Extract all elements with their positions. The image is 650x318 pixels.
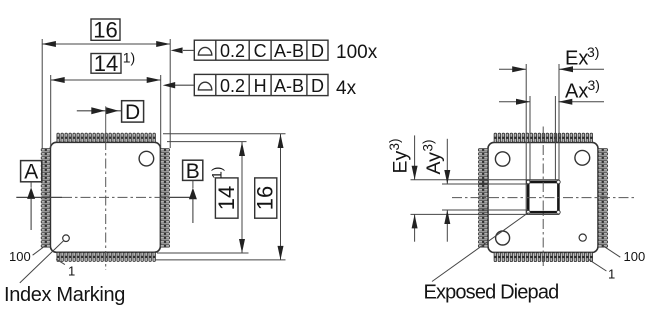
svg-text:16: 16 bbox=[93, 17, 117, 42]
svg-text:100: 100 bbox=[9, 249, 31, 264]
pin row bottom (right view) bbox=[494, 252, 592, 261]
exposed diepad label with leader bbox=[424, 213, 559, 304]
svg-text:100: 100 bbox=[624, 249, 646, 264]
svg-text:3): 3) bbox=[421, 139, 436, 151]
Ay extension lines bbox=[442, 184, 528, 210]
tolerance frame 2: profile 0.2 H A-B D (4x) bbox=[163, 74, 357, 99]
svg-text:A: A bbox=[24, 161, 38, 184]
dimension 16 vertical (right of left view) bbox=[155, 134, 286, 260]
dimension Ay (left, rotated) bbox=[421, 139, 451, 242]
dimension 14 horizontal (top) bbox=[51, 49, 161, 147]
svg-text:A-B: A-B bbox=[274, 76, 304, 96]
svg-text:Ax: Ax bbox=[565, 81, 588, 103]
svg-text:16: 16 bbox=[253, 186, 278, 210]
Ex extension lines bbox=[526, 64, 559, 180]
dimension Ey (left, rotated) bbox=[387, 135, 418, 241]
Ey extension lines bbox=[411, 180, 527, 215]
pin row right (right view) bbox=[598, 149, 608, 248]
svg-text:1): 1) bbox=[209, 167, 225, 179]
diepad corner circles bbox=[526, 180, 560, 214]
svg-text:1): 1) bbox=[123, 49, 135, 65]
dimension Ex (top) bbox=[499, 44, 604, 72]
svg-text:1: 1 bbox=[608, 267, 615, 282]
svg-text:4x: 4x bbox=[336, 78, 357, 99]
svg-text:A-B: A-B bbox=[274, 41, 304, 61]
dimension 16 horizontal (top) bbox=[42, 17, 170, 148]
vertical centerline (left view) bbox=[105, 106, 107, 270]
svg-text:3): 3) bbox=[387, 138, 402, 150]
svg-text:C: C bbox=[254, 41, 267, 61]
corner circle top-left (right view) bbox=[495, 152, 509, 166]
dimension 14 vertical (right of left view) bbox=[157, 142, 249, 253]
pin row top (left view, 25 leads) bbox=[57, 133, 155, 142]
svg-text:Exposed Diepad: Exposed Diepad bbox=[424, 282, 559, 304]
svg-text:D: D bbox=[125, 101, 140, 124]
svg-text:Ey: Ey bbox=[390, 150, 412, 173]
svg-text:0.2: 0.2 bbox=[220, 76, 245, 96]
corner circle top-right (right view) bbox=[575, 150, 590, 165]
datum A symbol bbox=[21, 161, 42, 230]
svg-text:3): 3) bbox=[587, 44, 599, 60]
exposed diepad (thick square) bbox=[528, 182, 558, 212]
svg-text:H: H bbox=[254, 76, 267, 96]
svg-text:14: 14 bbox=[94, 51, 118, 76]
svg-text:14: 14 bbox=[214, 186, 239, 210]
datum D symbol with leader arrows bbox=[77, 101, 144, 125]
horizontal centerline (right view) bbox=[452, 197, 634, 199]
package body (left top view) bbox=[50, 142, 160, 252]
svg-text:3): 3) bbox=[588, 77, 600, 93]
pin 100 label (right view) bbox=[604, 246, 645, 264]
corner circle bottom-left (right view) bbox=[496, 231, 510, 245]
pin row right (left view, 25 leads) bbox=[160, 149, 169, 248]
svg-text:Index Marking: Index Marking bbox=[4, 284, 125, 306]
svg-text:D: D bbox=[311, 76, 324, 96]
svg-text:D: D bbox=[311, 41, 324, 61]
Ax extension lines bbox=[530, 96, 555, 180]
pin 1 label (left view) bbox=[56, 259, 75, 279]
pin row bottom (left view, 25 leads) bbox=[57, 252, 155, 261]
exposed diepad outer outline bbox=[526, 180, 559, 215]
svg-text:Ay: Ay bbox=[423, 152, 445, 175]
tolerance frame 1: profile 0.2 C A-B D (100x) bbox=[171, 40, 378, 63]
svg-text:100x: 100x bbox=[336, 42, 378, 63]
svg-text:1: 1 bbox=[68, 264, 75, 279]
package body (right bottom view) bbox=[488, 142, 598, 252]
pin row left (right view) bbox=[478, 149, 488, 248]
horizontal centerline (left view) bbox=[16, 196, 194, 198]
svg-text:Ex: Ex bbox=[565, 48, 588, 70]
index circle bottom-right (right view) bbox=[579, 234, 586, 241]
index marking label with leader bbox=[4, 241, 125, 306]
datum B symbol bbox=[183, 160, 203, 223]
vertical centerline (right view) bbox=[542, 127, 544, 270]
pin row top (right view) bbox=[494, 133, 592, 142]
pin 100 label (left view) bbox=[9, 246, 45, 264]
pin row left (left view, 25 leads) bbox=[41, 149, 50, 248]
mold mark circle (left view) bbox=[139, 151, 154, 166]
svg-text:B: B bbox=[186, 160, 200, 183]
dimension Ax (top) bbox=[499, 77, 604, 105]
pin 1 label (right view) bbox=[588, 259, 615, 281]
index marking circle bbox=[63, 235, 70, 242]
svg-text:0.2: 0.2 bbox=[220, 41, 245, 61]
